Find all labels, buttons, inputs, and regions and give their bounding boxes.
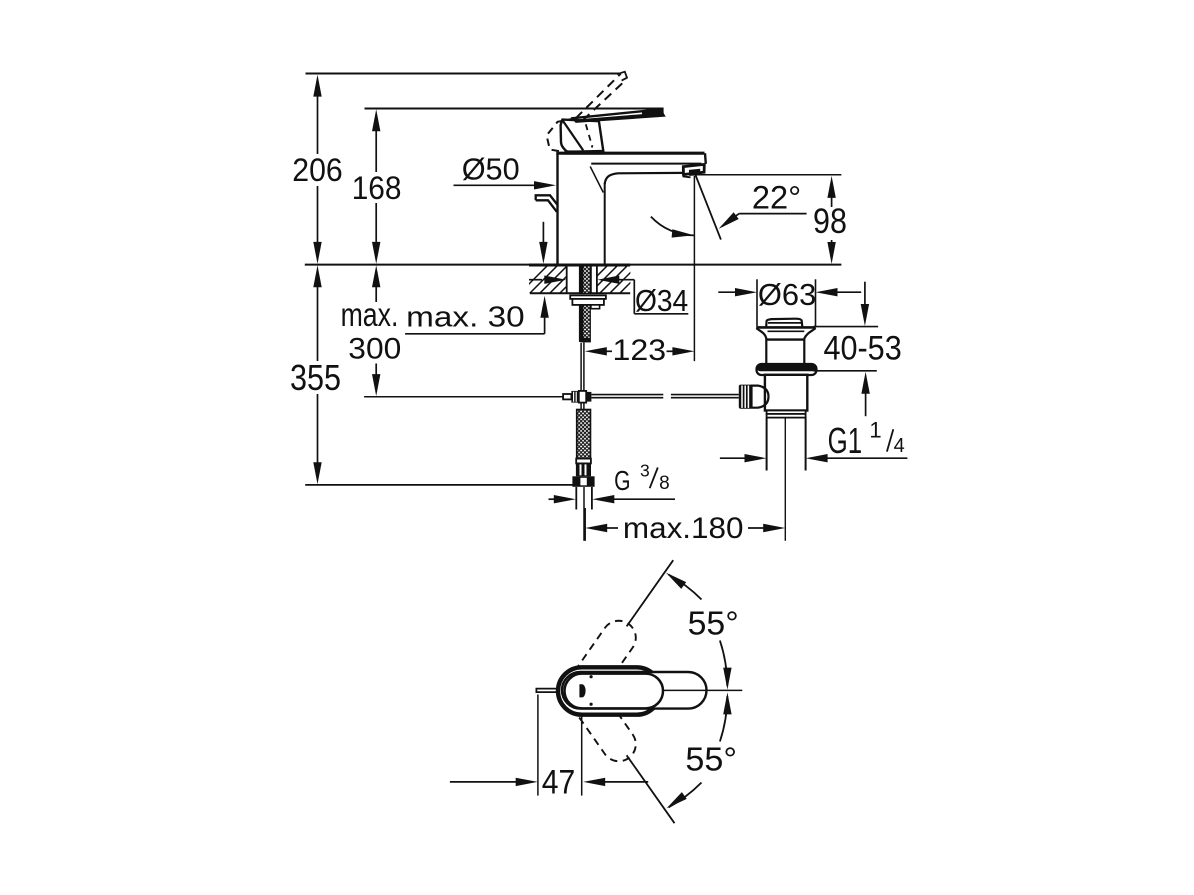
bottom reference line (355 level): [305, 484, 573, 486]
inner stadium: [565, 674, 664, 709]
47 dimension: [537, 695, 539, 796]
svg-text:Ø50: Ø50: [462, 152, 520, 187]
coupling: [767, 411, 806, 414]
body right edge: [604, 183, 606, 264]
hole sleeve lines: [566, 266, 568, 293]
solid knob: [561, 120, 604, 152]
taper: [756, 326, 816, 329]
svg-text:47: 47: [542, 764, 576, 802]
svg-text:55°: 55°: [688, 605, 739, 642]
G3/8 dimension: [549, 498, 555, 500]
svg-text:8: 8: [659, 473, 670, 494]
dashed rotated handle (lower): [558, 667, 643, 768]
body reflection diagonal: [590, 167, 603, 193]
svg-text:G1: G1: [828, 420, 863, 461]
dashed open lever: [576, 74, 621, 119]
cap: [766, 319, 802, 327]
centerline: [664, 689, 742, 691]
dashed knob outline: [547, 118, 576, 152]
dashed rotated handle (upper): [558, 614, 643, 715]
left bracket: [536, 195, 558, 212]
O63 dimension: [756, 279, 758, 326]
svg-text:3: 3: [640, 461, 650, 481]
arcs: [669, 575, 702, 600]
svg-text:max. 30: max. 30: [406, 302, 525, 334]
55deg slant lines: [627, 560, 674, 626]
threaded rod: [579, 266, 583, 294]
svg-text:Ø63: Ø63: [758, 277, 816, 312]
swing arc: [651, 217, 694, 236]
D blob: [579, 684, 585, 697]
handle-top reference line (168 level): [365, 108, 664, 110]
knurled knob: [739, 385, 752, 409]
svg-text:123: 123: [613, 334, 667, 367]
aerator: [683, 164, 704, 174]
40-53 dimension: [813, 326, 878, 328]
solid lever: [573, 109, 664, 121]
escutcheon (thick): [558, 667, 661, 714]
body left edge: [556, 153, 558, 264]
svg-text:300: 300: [348, 333, 401, 366]
stub: [536, 689, 558, 693]
22deg slant line: [696, 175, 721, 240]
svg-text:1: 1: [869, 418, 881, 443]
svg-text:Ø34: Ø34: [635, 283, 688, 318]
svg-text:22°: 22°: [752, 180, 801, 216]
flange: [757, 364, 817, 375]
svg-text:40-53: 40-53: [823, 330, 901, 368]
svg-text:max.180: max.180: [623, 512, 744, 545]
spout underside: [605, 173, 685, 184]
countertop reference line: [305, 264, 842, 266]
svg-text:206: 206: [292, 152, 342, 188]
svg-text:55°: 55°: [685, 741, 737, 778]
svg-text:355: 355: [290, 357, 341, 398]
washer and nut: [570, 295, 606, 299]
top reference line (206 level): [306, 73, 620, 75]
water stream line: [693, 176, 695, 361]
svg-text:4: 4: [894, 435, 905, 457]
horizontal linkage rod: [591, 394, 663, 396]
tailpipe: [766, 418, 768, 471]
max.180 dimension: [584, 508, 586, 541]
supply level line (max.300): [364, 396, 563, 398]
svg-text:168: 168: [352, 170, 402, 206]
svg-text:98: 98: [813, 202, 847, 241]
outer lever stadium: [562, 672, 707, 709]
G1 1/4 dimension: [720, 457, 746, 459]
top cap: [556, 152, 704, 155]
svg-text:max.: max.: [341, 296, 399, 333]
svg-text:G: G: [614, 465, 630, 496]
body: [765, 375, 807, 411]
